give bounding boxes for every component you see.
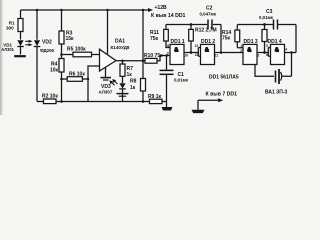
diode VD1 (LED) xyxy=(17,40,24,54)
wire oscillator bus 1 xyxy=(166,24,207,26)
junction dot node A xyxy=(60,53,63,56)
wire gate2 out to gate3 xyxy=(215,52,244,54)
junction dot R13 bus xyxy=(263,23,266,26)
ground bars VD3 xyxy=(117,94,129,97)
junction dot C1 tap xyxy=(165,54,168,57)
wire oscillator bus 2 xyxy=(237,24,296,26)
wire opamp V+ column xyxy=(107,10,109,54)
resistor R6 xyxy=(62,77,89,82)
resistor R7 xyxy=(120,61,125,83)
resistor R3 xyxy=(59,31,64,59)
junction dot supply column output cross xyxy=(142,59,145,62)
wire C3 drop xyxy=(295,25,297,53)
buzzer BA1 xyxy=(276,69,282,84)
junction dot R7 tap xyxy=(121,59,124,62)
resistor R4 xyxy=(59,59,64,102)
capacitor C3 xyxy=(274,20,278,30)
junction dot C2 drop xyxy=(220,51,223,54)
resistor R8 xyxy=(141,79,146,102)
wire R3 column xyxy=(61,10,63,31)
wire VD2 to bottom rail xyxy=(36,47,38,102)
ground bar main right xyxy=(192,110,205,113)
node +12V arrow tap xyxy=(145,8,153,12)
resistor R12 xyxy=(189,25,194,53)
resistor R10 xyxy=(145,56,170,64)
resistor R14 xyxy=(235,25,243,48)
wire supply column xyxy=(142,10,144,79)
junction dot R4 bottom rail xyxy=(60,100,63,103)
ground under VD1 xyxy=(14,55,26,57)
diode VD2 (photodiode) xyxy=(34,40,41,46)
wire opamp output xyxy=(116,60,145,62)
junction dot R12 gate wire xyxy=(190,51,193,54)
wire buzzer left drop xyxy=(255,65,274,77)
op-amp DA1 xyxy=(100,49,117,71)
junction dot R8 bottom rail xyxy=(142,100,145,103)
logic gate DD1.4 xyxy=(268,44,284,64)
wire top +12V rail xyxy=(21,9,146,11)
resistor R5 xyxy=(62,52,100,57)
junction dot buzzer riser xyxy=(290,51,293,54)
junction dot VD2 rail xyxy=(36,9,39,12)
junction dot R12 bus xyxy=(190,23,193,26)
wire buzzer right riser xyxy=(281,53,292,77)
wire gate3 out to gate4 xyxy=(257,52,268,54)
light arrows VD3 xyxy=(109,79,117,85)
wire gate4 out xyxy=(285,52,297,54)
resistor R11 xyxy=(164,25,170,48)
resistor R1 xyxy=(18,10,23,40)
wire bottom rail xyxy=(62,101,150,103)
resistor R13 xyxy=(262,25,267,53)
junction dot opamp V+ rail xyxy=(106,9,109,12)
ground bar main left xyxy=(162,102,173,111)
wire gate1 out to gate2 xyxy=(184,52,198,54)
diode VD3 (LED indicator) xyxy=(119,83,126,101)
resistor R9 xyxy=(150,99,167,103)
ground under op-amp xyxy=(101,68,112,81)
wire R6 node riser to inverting input xyxy=(87,66,100,102)
junction dot R6 tap xyxy=(60,78,63,81)
junction dot R13 gate wire xyxy=(263,51,266,54)
junction dot supply column rail xyxy=(142,9,145,12)
wire C2 to gate output xyxy=(220,25,222,53)
node K vyv 7 arrow xyxy=(198,98,223,109)
wire VD2 column xyxy=(36,10,38,40)
resistor R2 xyxy=(37,99,62,104)
junction dot R3 rail xyxy=(60,9,63,12)
capacitor C2 xyxy=(208,20,221,30)
logic gate DD1.2 xyxy=(198,44,214,64)
logic gate DD1.3 xyxy=(243,44,257,64)
logic gate DD1.1 xyxy=(170,44,184,64)
light arrows VD1 to VD2 xyxy=(25,40,32,47)
capacitor C1 xyxy=(160,56,174,102)
